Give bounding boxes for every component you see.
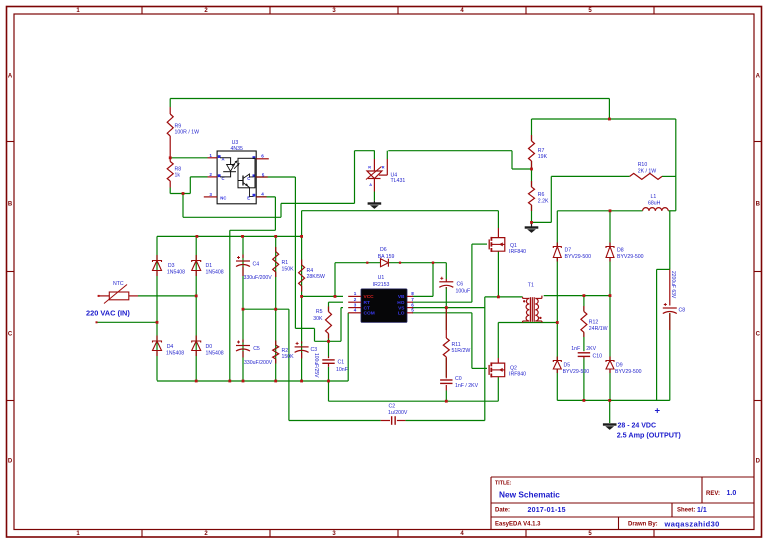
- svg-text:2: 2: [354, 297, 357, 302]
- svg-text:BA 159: BA 159: [378, 254, 395, 260]
- svg-text:2.5 Amp (OUTPUT): 2.5 Amp (OUTPUT): [617, 430, 682, 439]
- svg-text:7: 7: [411, 297, 414, 302]
- svg-text:IR2153: IR2153: [373, 282, 390, 288]
- svg-text:1: 1: [209, 153, 212, 158]
- svg-text:D: D: [756, 459, 761, 465]
- svg-text:RT: RT: [364, 300, 370, 306]
- svg-text:R1: R1: [282, 260, 289, 266]
- svg-text:1k: 1k: [175, 173, 181, 179]
- svg-text:R7: R7: [538, 148, 545, 154]
- svg-text:C4: C4: [253, 262, 260, 268]
- svg-text:R6: R6: [538, 192, 545, 198]
- svg-text:1/1: 1/1: [697, 507, 707, 514]
- svg-text:1nF / 2KV: 1nF / 2KV: [455, 383, 479, 389]
- svg-text:VCC: VCC: [364, 294, 375, 300]
- svg-text:CT: CT: [364, 305, 370, 311]
- svg-text:5: 5: [411, 308, 414, 313]
- svg-text:4: 4: [354, 308, 357, 313]
- svg-text:T1: T1: [528, 283, 534, 289]
- svg-text:C0: C0: [455, 376, 462, 382]
- svg-text:C1: C1: [338, 360, 345, 366]
- svg-text:4: 4: [261, 191, 264, 196]
- svg-text:2017-01-15: 2017-01-15: [528, 507, 566, 514]
- svg-text:2K / 1W: 2K / 1W: [638, 169, 657, 175]
- svg-text:Sheet:: Sheet:: [677, 508, 695, 514]
- svg-text:24R/1W: 24R/1W: [589, 326, 608, 332]
- svg-text:A: A: [756, 74, 761, 80]
- svg-text:LO: LO: [398, 311, 405, 317]
- svg-text:R4: R4: [307, 268, 314, 274]
- svg-text:C: C: [756, 332, 761, 338]
- svg-text:BYV29-500: BYV29-500: [617, 254, 644, 260]
- svg-text:COM: COM: [364, 311, 375, 317]
- svg-text:10nF: 10nF: [336, 367, 348, 373]
- svg-text:2200uF 63V: 2200uF 63V: [670, 271, 676, 299]
- svg-text:150K: 150K: [282, 354, 295, 360]
- svg-text:3: 3: [209, 192, 212, 197]
- svg-text:150K: 150K: [282, 267, 295, 273]
- svg-text:2.2K: 2.2K: [538, 198, 549, 204]
- svg-text:B: B: [8, 202, 13, 208]
- svg-text:EasyEDA V4.1.3: EasyEDA V4.1.3: [495, 522, 541, 528]
- svg-text:R11: R11: [452, 342, 461, 348]
- svg-text:BYV29-500: BYV29-500: [565, 254, 592, 260]
- svg-text:1nF: 1nF: [571, 346, 580, 352]
- svg-text:D8: D8: [617, 248, 624, 254]
- svg-text:D4: D4: [167, 344, 174, 350]
- svg-text:R: R: [382, 166, 385, 170]
- svg-text:R9: R9: [175, 123, 182, 129]
- svg-text:R12: R12: [589, 320, 599, 326]
- svg-text:19K: 19K: [538, 154, 548, 160]
- svg-text:1N5408: 1N5408: [167, 269, 185, 275]
- svg-text:D1: D1: [206, 263, 213, 269]
- svg-text:1u/200V: 1u/200V: [388, 410, 408, 416]
- svg-text:220 VAC (IN): 220 VAC (IN): [86, 308, 130, 317]
- svg-text:D: D: [8, 459, 13, 465]
- svg-text:1N5408: 1N5408: [206, 269, 224, 275]
- svg-text:IRF840: IRF840: [509, 371, 526, 377]
- svg-text:28K/5W: 28K/5W: [307, 274, 326, 280]
- svg-text:D6: D6: [380, 247, 387, 253]
- svg-text:30K: 30K: [313, 316, 323, 322]
- svg-text:L1: L1: [651, 194, 657, 200]
- svg-text:NC: NC: [220, 196, 226, 201]
- svg-text:5: 5: [262, 172, 265, 177]
- svg-text:REV:: REV:: [706, 491, 720, 497]
- svg-text:D9: D9: [616, 363, 623, 369]
- svg-text:330uF/200V: 330uF/200V: [244, 275, 273, 281]
- svg-text:HO: HO: [397, 300, 404, 306]
- svg-text:Date:: Date:: [495, 508, 510, 514]
- svg-text:1N5408: 1N5408: [166, 350, 184, 356]
- svg-text:+: +: [655, 406, 661, 417]
- svg-text:D0: D0: [206, 344, 213, 350]
- svg-text:1: 1: [354, 291, 357, 296]
- svg-text:C5: C5: [253, 346, 260, 352]
- svg-text:U3: U3: [232, 140, 239, 146]
- svg-text:2: 2: [209, 172, 212, 177]
- svg-text:4N35: 4N35: [231, 146, 244, 152]
- svg-text:A: A: [369, 183, 372, 187]
- svg-text:R2: R2: [282, 348, 289, 354]
- svg-text:51R/2W: 51R/2W: [452, 348, 471, 354]
- svg-text:100uF/25V: 100uF/25V: [313, 353, 319, 378]
- svg-text:D3: D3: [168, 263, 175, 269]
- svg-text:IRF840: IRF840: [509, 249, 526, 255]
- svg-text:BYV29-500: BYV29-500: [615, 369, 642, 375]
- svg-text:D7: D7: [565, 248, 572, 254]
- svg-text:TITLE:: TITLE:: [495, 480, 512, 486]
- svg-text:330uF/200V: 330uF/200V: [244, 360, 273, 366]
- svg-text:B: B: [756, 202, 761, 208]
- svg-text:BYV29-500: BYV29-500: [563, 369, 590, 375]
- svg-text:Drawn By:: Drawn By:: [628, 522, 658, 528]
- svg-text:TL431: TL431: [391, 178, 406, 184]
- svg-text:C2: C2: [389, 403, 396, 409]
- svg-text:C8: C8: [679, 308, 686, 314]
- svg-text:R10: R10: [638, 162, 648, 168]
- svg-text:100uF: 100uF: [456, 288, 471, 294]
- svg-text:D5: D5: [564, 363, 571, 369]
- svg-text:C6: C6: [457, 281, 464, 287]
- svg-text:8: 8: [411, 291, 414, 296]
- svg-text:R: R: [368, 166, 371, 170]
- svg-text:C: C: [8, 332, 13, 338]
- svg-text:New Schematic: New Schematic: [499, 489, 560, 499]
- svg-text:NTC: NTC: [113, 281, 124, 287]
- svg-text:100R / 1W: 100R / 1W: [175, 130, 200, 136]
- svg-text:1.0: 1.0: [727, 490, 737, 497]
- svg-text:VB: VB: [398, 294, 405, 300]
- svg-text:2KV: 2KV: [586, 346, 596, 352]
- svg-text:VS: VS: [398, 305, 405, 311]
- svg-text:waqaszahid30: waqaszahid30: [664, 519, 720, 528]
- svg-text:U1: U1: [378, 275, 385, 281]
- svg-text:C10: C10: [593, 353, 603, 359]
- svg-text:A: A: [8, 74, 13, 80]
- svg-text:R5: R5: [316, 309, 323, 315]
- svg-text:68uH: 68uH: [648, 200, 661, 206]
- svg-text:28 - 24 VDC: 28 - 24 VDC: [618, 423, 657, 430]
- svg-text:R8: R8: [175, 166, 182, 172]
- svg-text:1N5408: 1N5408: [206, 350, 224, 356]
- svg-text:6: 6: [261, 153, 264, 158]
